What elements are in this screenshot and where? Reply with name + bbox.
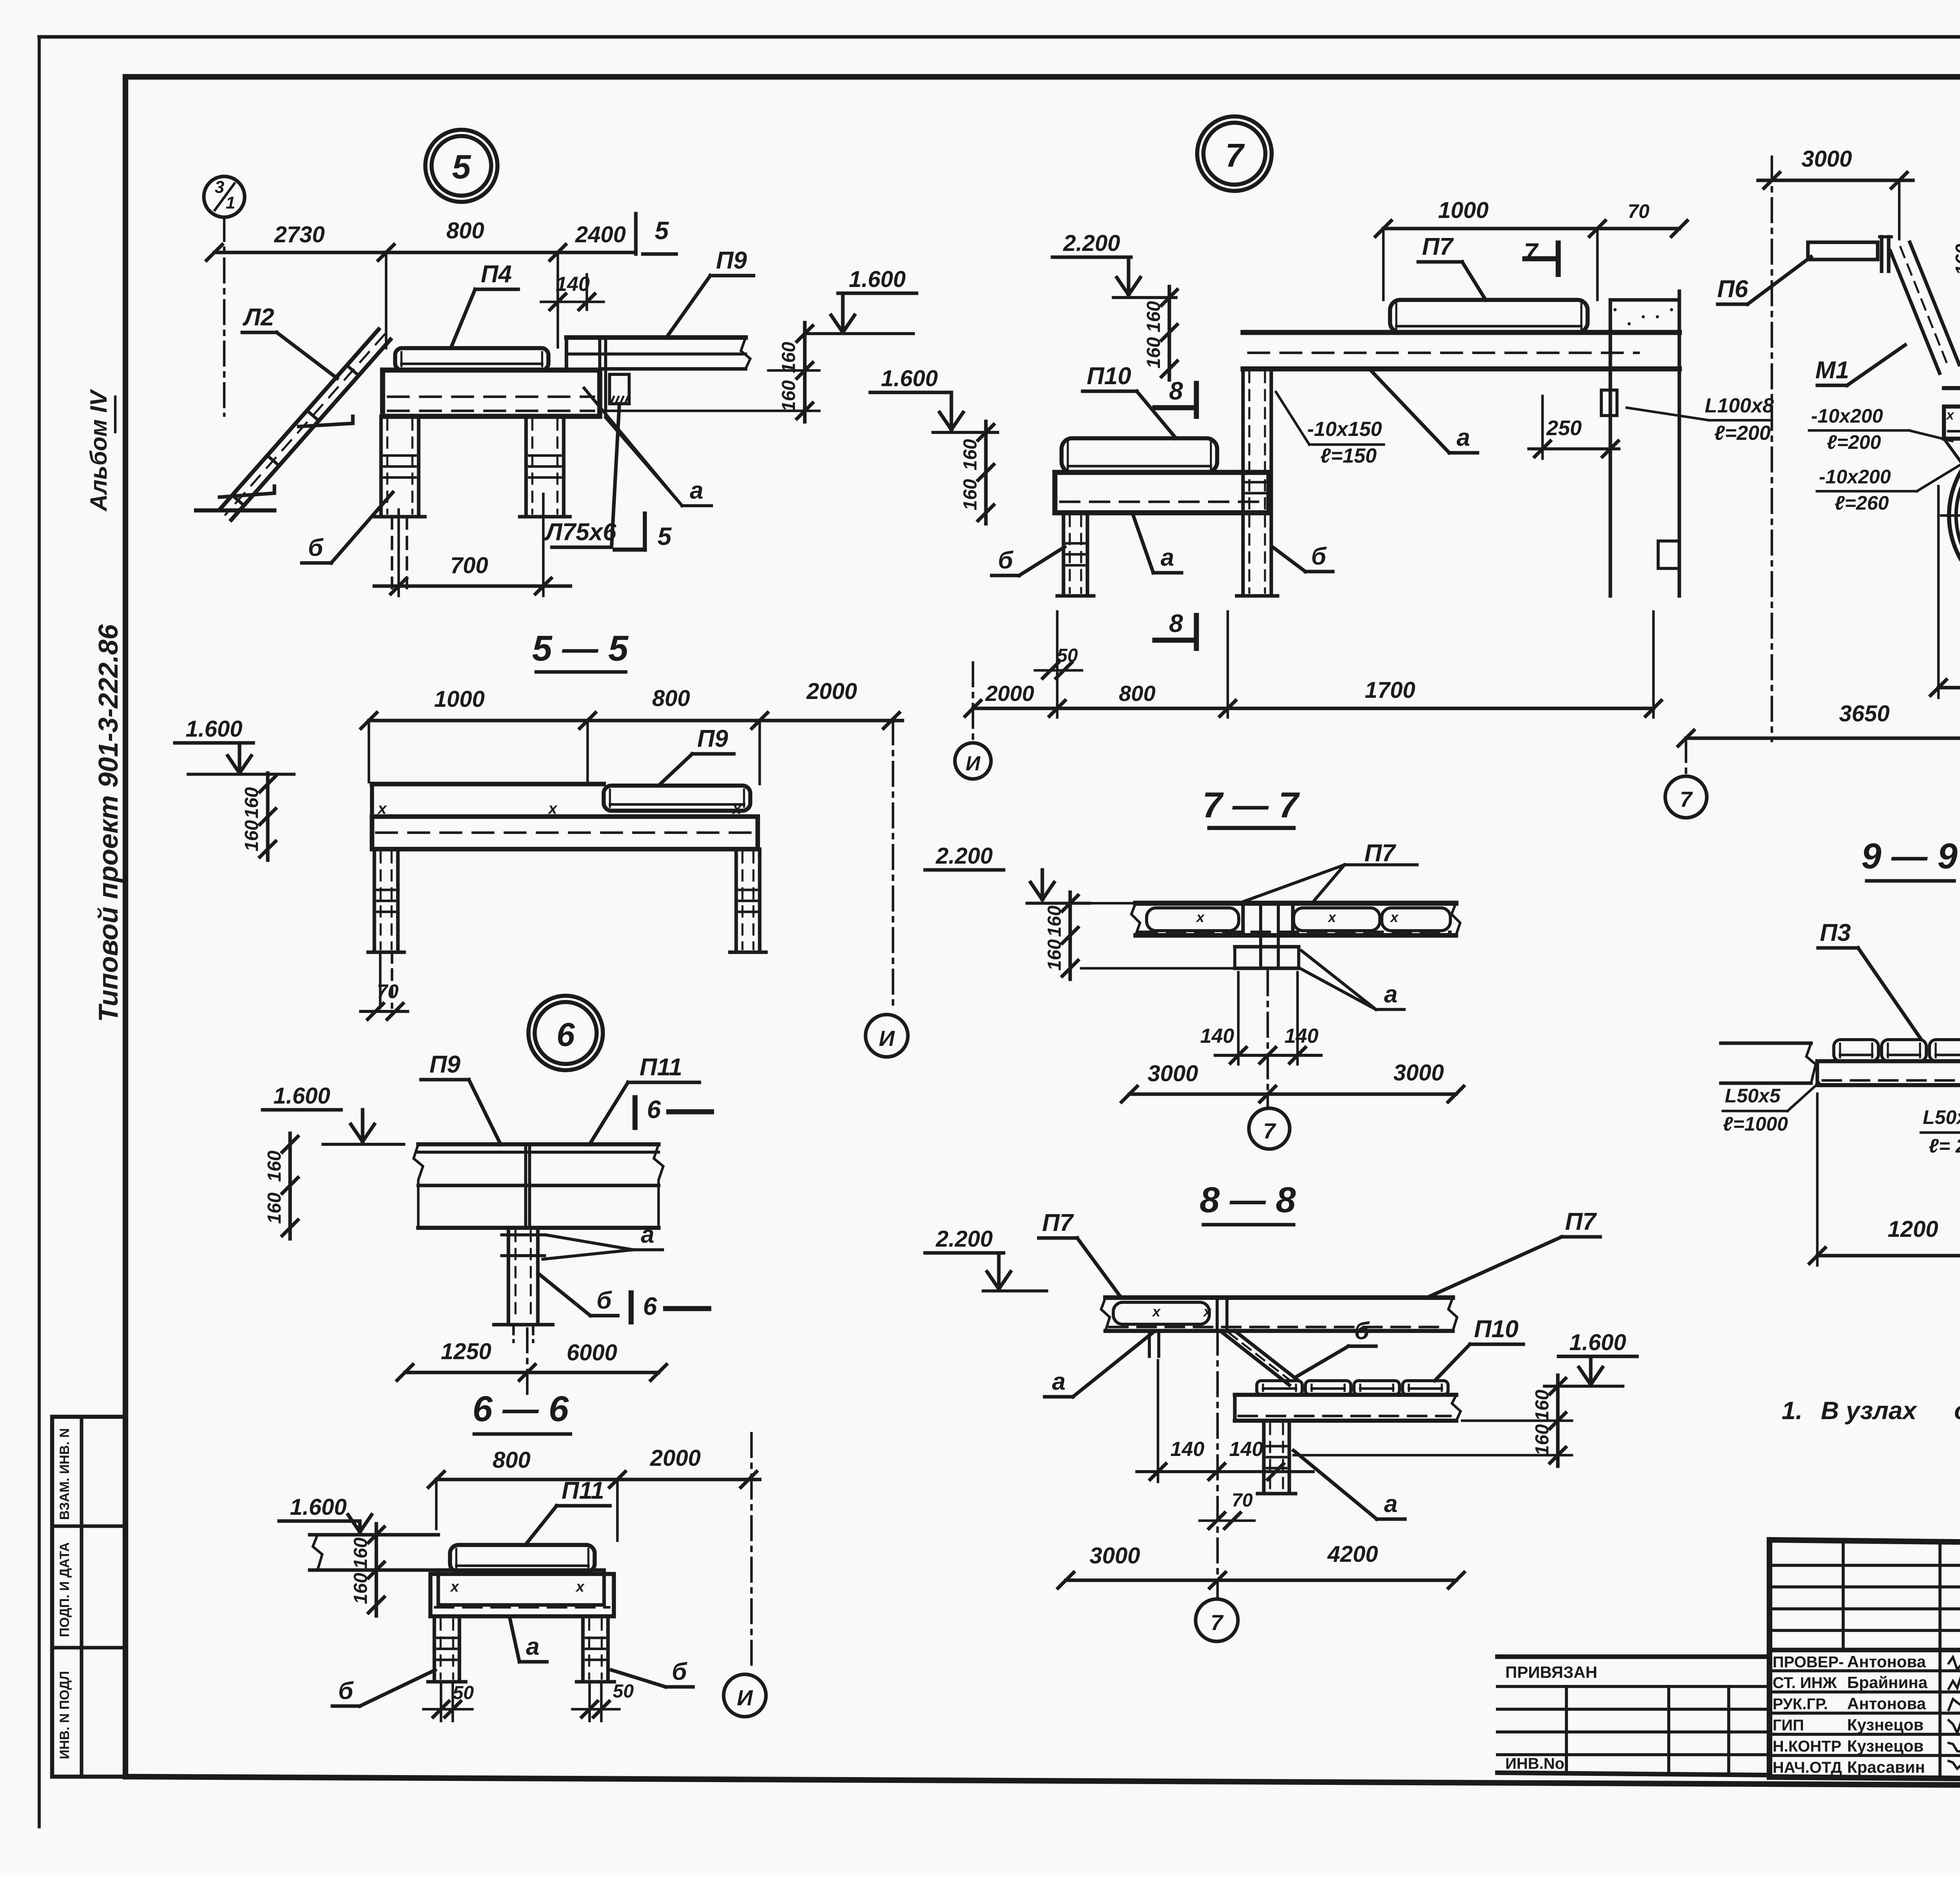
svg-text:7: 7: [1524, 238, 1539, 266]
svg-text:6 — 6: 6 — 6: [472, 1389, 569, 1429]
svg-text:5 — 5: 5 — 5: [532, 628, 629, 668]
svg-text:6: 6: [647, 1095, 661, 1124]
svg-text:а: а: [1052, 1368, 1065, 1395]
svg-text:x: x: [1946, 408, 1955, 423]
svg-text:И: И: [737, 1685, 753, 1710]
svg-text:160: 160: [1044, 906, 1065, 937]
svg-text:160: 160: [960, 479, 981, 510]
svg-text:б: б: [672, 1658, 688, 1685]
svg-text:160: 160: [350, 1573, 371, 1604]
svg-text:ПРИВЯЗАН: ПРИВЯЗАН: [1505, 1663, 1597, 1681]
svg-text:а: а: [1384, 981, 1397, 1008]
svg-text:П7: П7: [1565, 1208, 1597, 1235]
svg-text:160: 160: [241, 820, 262, 851]
svg-text:2400: 2400: [575, 222, 626, 247]
svg-text:3000: 3000: [1089, 1543, 1140, 1568]
svg-text:2730: 2730: [274, 222, 325, 247]
svg-text:ℓ=1000: ℓ=1000: [1723, 1113, 1788, 1135]
svg-text:а: а: [1457, 424, 1470, 451]
svg-text:П7: П7: [1364, 840, 1396, 867]
svg-text:x: x: [1203, 1303, 1212, 1320]
svg-text:П10: П10: [1087, 363, 1131, 390]
svg-text:а: а: [1161, 544, 1174, 571]
svg-text:x: x: [575, 1579, 585, 1595]
svg-text:50: 50: [453, 1683, 474, 1703]
svg-text:Типовой проект 901-3-222.86: Типовой проект 901-3-222.86: [93, 624, 123, 1022]
svg-text:1000: 1000: [434, 686, 485, 712]
svg-text:а: а: [526, 1633, 539, 1660]
svg-text:2.200: 2.200: [935, 1226, 993, 1252]
svg-text:3000: 3000: [1147, 1061, 1198, 1086]
svg-text:И: И: [879, 1026, 895, 1051]
svg-text:ГИП: ГИП: [1773, 1717, 1804, 1734]
svg-text:160: 160: [1044, 939, 1065, 971]
svg-text:ℓ=150: ℓ=150: [1320, 445, 1377, 467]
svg-text:Н.КОНТР: Н.КОНТР: [1773, 1738, 1842, 1755]
svg-text:ℓ= 200: ℓ= 200: [1929, 1135, 1960, 1157]
svg-text:П9: П9: [697, 725, 728, 752]
svg-text:2.200: 2.200: [1063, 231, 1120, 256]
svg-text:7: 7: [1680, 787, 1693, 811]
svg-text:П10: П10: [1474, 1316, 1519, 1343]
svg-text:160: 160: [1143, 301, 1164, 332]
svg-text:160: 160: [960, 439, 981, 470]
svg-text:-10x150: -10x150: [1307, 418, 1382, 441]
svg-text:70: 70: [1628, 200, 1650, 222]
svg-text:Альбом IV: Альбом IV: [85, 388, 112, 512]
svg-text:П7: П7: [1042, 1209, 1074, 1236]
svg-text:70: 70: [377, 980, 399, 1002]
svg-text:9 — 9: 9 — 9: [1861, 836, 1957, 876]
svg-text:3650: 3650: [1839, 701, 1889, 726]
svg-text:7: 7: [1263, 1118, 1276, 1143]
svg-text:1.: 1.: [1782, 1396, 1802, 1425]
svg-text:2000: 2000: [985, 681, 1034, 706]
svg-text:ℓ=200: ℓ=200: [1827, 431, 1881, 453]
svg-text:Красавин: Красавин: [1847, 1758, 1925, 1776]
svg-text:6: 6: [557, 1016, 575, 1053]
svg-text:160: 160: [1532, 1390, 1553, 1421]
svg-text:x: x: [450, 1579, 459, 1595]
svg-text:1.600: 1.600: [881, 366, 938, 391]
svg-text:160: 160: [779, 342, 799, 373]
svg-text:ВЗАМ. ИНВ. N: ВЗАМ. ИНВ. N: [57, 1428, 72, 1520]
svg-text:П4: П4: [481, 261, 512, 288]
svg-text:а: а: [690, 477, 703, 504]
svg-text:П3: П3: [1820, 919, 1851, 946]
svg-text:x: x: [1152, 1303, 1161, 1320]
svg-text:П6: П6: [1717, 276, 1748, 303]
svg-text:800: 800: [446, 218, 485, 243]
svg-text:-10x200: -10x200: [1811, 405, 1883, 427]
svg-text:L100x8: L100x8: [1705, 394, 1774, 417]
svg-text:160: 160: [1143, 337, 1164, 369]
svg-text:б: б: [998, 547, 1014, 574]
svg-text:800: 800: [652, 686, 690, 711]
svg-text:ПРОВЕР-: ПРОВЕР-: [1773, 1654, 1844, 1671]
svg-text:1000: 1000: [1438, 198, 1488, 223]
svg-text:Л75x6: Л75x6: [544, 519, 617, 546]
svg-text:8: 8: [1169, 377, 1183, 405]
svg-text:П11: П11: [562, 1477, 604, 1504]
svg-text:140: 140: [1285, 1025, 1319, 1047]
svg-text:3000: 3000: [1801, 146, 1852, 172]
svg-text:2.200: 2.200: [935, 843, 993, 869]
svg-text:6000: 6000: [566, 1340, 617, 1365]
svg-text:П9: П9: [716, 247, 747, 274]
svg-text:1.600: 1.600: [1569, 1330, 1626, 1355]
svg-text:160: 160: [779, 380, 799, 412]
svg-text:5: 5: [452, 148, 471, 186]
svg-text:ПОДП. И ДАТА: ПОДП. И ДАТА: [57, 1542, 72, 1637]
svg-text:L50x5: L50x5: [1923, 1106, 1960, 1128]
svg-text:1: 1: [226, 193, 235, 212]
svg-text:160: 160: [264, 1193, 285, 1224]
svg-text:П9: П9: [429, 1051, 461, 1078]
svg-text:Антонова: Антонова: [1847, 1694, 1926, 1713]
svg-text:50: 50: [613, 1681, 634, 1702]
svg-text:x: x: [377, 800, 387, 817]
svg-text:СТ. ИНЖ: СТ. ИНЖ: [1773, 1674, 1837, 1692]
svg-text:1.600: 1.600: [185, 716, 242, 742]
svg-text:1250: 1250: [441, 1339, 491, 1364]
svg-text:160: 160: [350, 1538, 371, 1569]
svg-text:800: 800: [493, 1447, 531, 1473]
svg-text:140: 140: [1171, 1438, 1205, 1461]
svg-text:б: б: [1354, 1318, 1370, 1345]
svg-text:НАЧ.ОТД: НАЧ.ОТД: [1773, 1759, 1842, 1776]
svg-text:250: 250: [1546, 416, 1582, 440]
svg-text:x: x: [548, 800, 558, 817]
svg-text:Л2: Л2: [242, 304, 274, 331]
svg-text:1.600: 1.600: [849, 267, 906, 292]
svg-text:160: 160: [1532, 1424, 1553, 1456]
svg-text:3: 3: [215, 178, 224, 197]
svg-text:а: а: [1384, 1490, 1397, 1518]
svg-text:5: 5: [657, 522, 672, 550]
svg-text:а: а: [641, 1221, 654, 1248]
svg-text:ℓ=200: ℓ=200: [1714, 422, 1771, 445]
svg-text:70: 70: [1232, 1490, 1253, 1511]
svg-text:РУК.ГР.: РУК.ГР.: [1773, 1695, 1828, 1713]
svg-text:2000: 2000: [650, 1445, 701, 1471]
svg-text:x: x: [732, 800, 742, 817]
svg-text:1.600: 1.600: [273, 1083, 330, 1109]
svg-text:В узлах: В узлах: [1821, 1396, 1917, 1425]
svg-text:П11: П11: [640, 1054, 682, 1081]
svg-text:160: 160: [1952, 244, 1960, 275]
svg-text:ограждение: ограждение: [1954, 1396, 1960, 1425]
svg-text:б: б: [308, 534, 324, 561]
svg-text:L50x5: L50x5: [1725, 1085, 1781, 1107]
svg-text:x: x: [1327, 909, 1337, 925]
svg-text:x: x: [1196, 909, 1205, 925]
svg-text:3000: 3000: [1393, 1060, 1444, 1086]
svg-text:7 — 7: 7 — 7: [1202, 785, 1300, 825]
svg-text:1700: 1700: [1365, 677, 1415, 703]
svg-text:140: 140: [1200, 1025, 1234, 1047]
svg-text:140: 140: [1229, 1438, 1263, 1461]
svg-text:Кузнецов: Кузнецов: [1847, 1715, 1924, 1734]
svg-text:7: 7: [1225, 137, 1245, 174]
svg-text:Кузнецов: Кузнецов: [1847, 1737, 1924, 1755]
svg-text:140: 140: [556, 273, 590, 296]
svg-text:ИНВ.No: ИНВ.No: [1505, 1755, 1564, 1772]
svg-text:Брайнина: Брайнина: [1847, 1673, 1928, 1692]
svg-text:М1: М1: [1815, 357, 1849, 384]
svg-text:160: 160: [241, 787, 262, 819]
svg-text:П7: П7: [1422, 233, 1454, 260]
svg-text:700: 700: [450, 553, 488, 578]
svg-text:И: И: [965, 752, 981, 775]
svg-text:ℓ=260: ℓ=260: [1835, 492, 1889, 514]
svg-text:4200: 4200: [1327, 1541, 1378, 1567]
svg-text:Антонова: Антонова: [1847, 1652, 1926, 1671]
svg-text:8 — 8: 8 — 8: [1200, 1180, 1296, 1220]
svg-text:-10x200: -10x200: [1819, 466, 1891, 488]
svg-text:б: б: [338, 1677, 354, 1705]
svg-text:1.600: 1.600: [290, 1494, 347, 1520]
svg-text:1200: 1200: [1887, 1216, 1938, 1242]
svg-text:б: б: [1311, 543, 1327, 570]
svg-text:800: 800: [1119, 681, 1155, 706]
svg-text:8: 8: [1169, 609, 1183, 637]
svg-text:б: б: [597, 1287, 612, 1314]
svg-text:6: 6: [643, 1292, 657, 1320]
svg-text:x: x: [1390, 909, 1399, 925]
svg-text:5: 5: [655, 216, 669, 245]
svg-text:ИНВ. N ПОДЛ: ИНВ. N ПОДЛ: [57, 1671, 72, 1759]
svg-text:2000: 2000: [806, 679, 857, 704]
svg-text:7: 7: [1210, 1610, 1224, 1635]
svg-text:160: 160: [264, 1151, 285, 1182]
